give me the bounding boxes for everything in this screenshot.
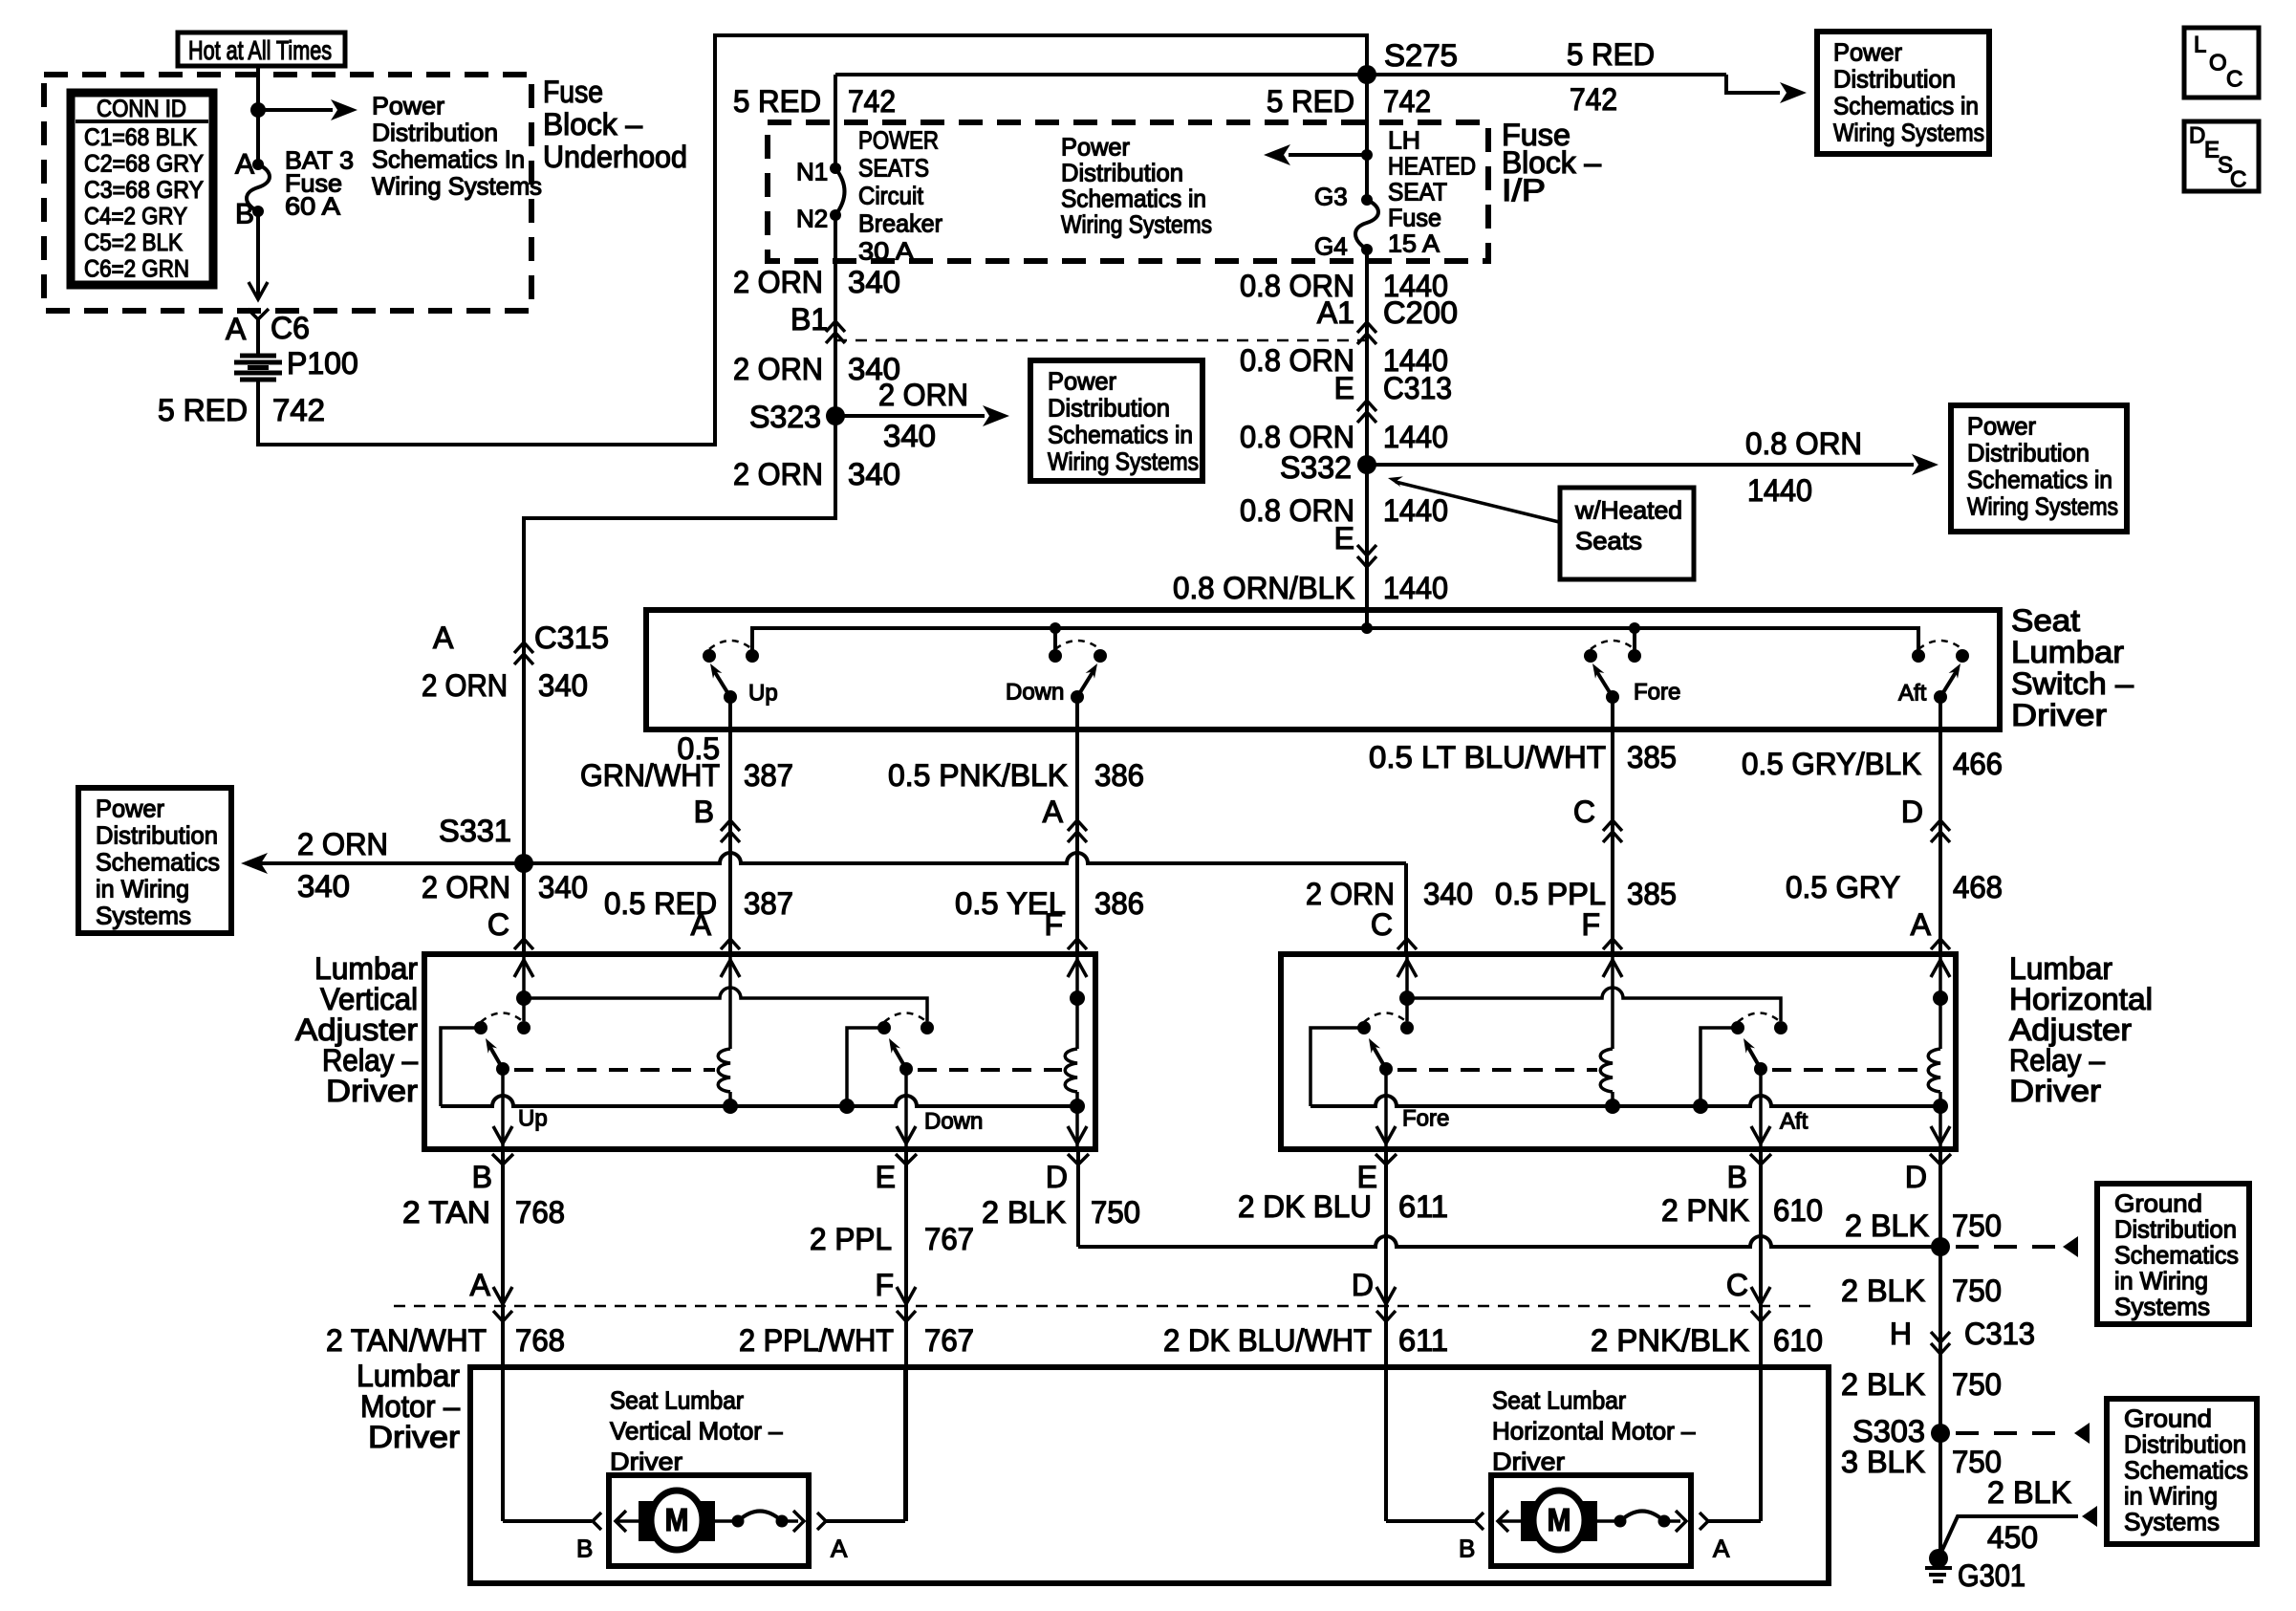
- svg-text:A: A: [1043, 795, 1064, 829]
- wire 450 to ground ref: [1942, 1516, 2078, 1550]
- svg-text:A: A: [691, 907, 712, 942]
- fuse block underhood dashed enclosure: [44, 75, 531, 311]
- connector symbol F left relay: [1068, 939, 1087, 949]
- svg-text:15 A: 15 A: [1388, 229, 1440, 258]
- svg-text:2 PPL: 2 PPL: [810, 1222, 892, 1256]
- connector C308 A symbol: [493, 1287, 512, 1304]
- wire arrow S323 to power distribution: [835, 414, 985, 418]
- wire down output 386: [1075, 697, 1079, 951]
- connector symbol below E pin (611): [1375, 1154, 1397, 1165]
- svg-text:2 ORN: 2 ORN: [422, 668, 508, 703]
- ref box: power distribution schematics (S323): [1030, 360, 1202, 481]
- svg-text:Power: Power: [1061, 133, 1130, 162]
- svg-text:B1: B1: [791, 302, 828, 337]
- svg-text:in Wiring: in Wiring: [2114, 1267, 2208, 1295]
- svg-text:G4: G4: [1314, 232, 1348, 261]
- connector symbol C right relay: [1397, 939, 1417, 949]
- svg-text:2 BLK: 2 BLK: [982, 1195, 1066, 1230]
- svg-text:N2: N2: [796, 205, 828, 233]
- connector C308 D symbol: [1376, 1287, 1396, 1304]
- svg-text:Distribution: Distribution: [2114, 1215, 2237, 1244]
- svg-text:2 TAN: 2 TAN: [402, 1195, 490, 1230]
- svg-text:0.8 ORN: 0.8 ORN: [1240, 420, 1354, 454]
- relay internals: lumbar horizontal (Fore/Aft): [1405, 954, 1409, 998]
- svg-text:Driver: Driver: [1492, 1448, 1565, 1476]
- wire S331 rail with hops: [252, 853, 1406, 863]
- wire S331 column down: [522, 863, 526, 951]
- svg-text:750: 750: [1952, 1367, 2002, 1402]
- svg-text:HEATED: HEATED: [1388, 152, 1476, 181]
- svg-text:C200: C200: [1383, 295, 1458, 330]
- svg-text:767: 767: [924, 1222, 974, 1256]
- node S332: [1357, 455, 1376, 474]
- svg-text:Vertical: Vertical: [320, 982, 418, 1016]
- svg-text:D: D: [1046, 1160, 1068, 1194]
- svg-text:B: B: [1459, 1535, 1475, 1563]
- svg-text:Power: Power: [372, 92, 444, 120]
- connector symbol below E pin: [896, 1154, 917, 1165]
- svg-text:340: 340: [297, 869, 350, 903]
- svg-text:Seat: Seat: [2011, 603, 2080, 638]
- fuse BAT 3 terminal B: [252, 206, 264, 217]
- connector symbol D (466): [1931, 820, 1950, 831]
- svg-text:Power: Power: [1967, 412, 2036, 441]
- svg-text:Motor –: Motor –: [360, 1389, 460, 1424]
- svg-text:B: B: [1727, 1160, 1747, 1194]
- svg-text:2 ORN: 2 ORN: [733, 352, 823, 386]
- svg-text:E: E: [1334, 371, 1354, 405]
- svg-text:2 ORN: 2 ORN: [878, 378, 968, 412]
- wire up output 387: [728, 697, 732, 951]
- svg-text:F: F: [875, 1268, 894, 1302]
- svg-text:340: 340: [538, 668, 588, 703]
- DESC box: [2184, 121, 2259, 191]
- svg-text:0.5 GRY/BLK: 0.5 GRY/BLK: [1742, 747, 1921, 781]
- svg-text:387: 387: [744, 886, 793, 921]
- svg-text:S332: S332: [1280, 450, 1352, 485]
- node bus at down switch: [1050, 622, 1061, 634]
- svg-text:Lumbar: Lumbar: [314, 951, 418, 986]
- svg-text:M: M: [665, 1502, 689, 1537]
- svg-text:468: 468: [1953, 870, 2003, 904]
- svg-text:385: 385: [1627, 877, 1677, 911]
- svg-text:C313: C313: [1964, 1317, 2035, 1351]
- svg-text:B: B: [576, 1535, 593, 1563]
- svg-text:Aft: Aft: [1898, 680, 1927, 706]
- svg-text:1440: 1440: [1383, 571, 1448, 605]
- svg-text:S323: S323: [749, 400, 821, 434]
- svg-text:0.5 PPL: 0.5 PPL: [1495, 877, 1606, 911]
- svg-text:Seats: Seats: [1575, 527, 1642, 555]
- svg-text:Fuse: Fuse: [543, 75, 603, 109]
- connector C313-H symbol: [1931, 1332, 1950, 1342]
- svg-text:N1: N1: [796, 158, 828, 186]
- svg-text:2 DK BLU/WHT: 2 DK BLU/WHT: [1163, 1323, 1372, 1358]
- node S331: [514, 854, 533, 873]
- wire B pin 768: [501, 1149, 505, 1306]
- svg-text:Vertical Motor –: Vertical Motor –: [610, 1417, 783, 1446]
- connector symbol A right relay: [1931, 939, 1950, 949]
- connector symbol C left relay: [514, 939, 533, 949]
- relay internals: lumbar vertical (Up/Down): [522, 954, 526, 998]
- svg-text:Driver: Driver: [2009, 1074, 2101, 1108]
- connector C6 female symbol: [248, 309, 269, 319]
- svg-text:SEAT: SEAT: [1388, 178, 1447, 207]
- svg-text:60 A: 60 A: [285, 192, 341, 221]
- svg-text:A: A: [1911, 907, 1932, 942]
- stub to down switch contact: [1053, 628, 1057, 650]
- svg-text:450: 450: [1987, 1520, 2038, 1555]
- svg-text:611: 611: [1398, 1323, 1448, 1358]
- dashed ref to ground distribution (upper): [1956, 1245, 2059, 1249]
- svg-text:Ground: Ground: [2114, 1189, 2202, 1218]
- circuit breaker element: [835, 168, 845, 215]
- svg-text:A: A: [433, 620, 454, 655]
- svg-text:610: 610: [1773, 1193, 1823, 1228]
- svg-text:2 TAN/WHT: 2 TAN/WHT: [326, 1323, 487, 1358]
- wire D into motor box: [1384, 1306, 1388, 1521]
- svg-text:D: D: [1352, 1268, 1374, 1302]
- svg-text:D: D: [1901, 795, 1923, 829]
- svg-text:Schematics in: Schematics in: [1833, 92, 1979, 120]
- svg-text:F: F: [1044, 907, 1063, 942]
- svg-text:742: 742: [272, 393, 325, 427]
- svg-text:0.5 GRY: 0.5 GRY: [1786, 870, 1900, 904]
- svg-text:Underhood: Underhood: [543, 140, 687, 174]
- svg-text:386: 386: [1094, 886, 1144, 921]
- svg-text:A: A: [226, 312, 247, 346]
- svg-text:L: L: [2194, 32, 2206, 57]
- svg-text:Driver: Driver: [326, 1074, 418, 1108]
- svg-text:Distribution: Distribution: [1048, 394, 1170, 423]
- svg-text:Wiring Systems: Wiring Systems: [1061, 210, 1212, 239]
- svg-text:G301: G301: [1958, 1558, 2025, 1593]
- svg-text:466: 466: [1953, 747, 2003, 781]
- wire S275 horizontal rail: [835, 73, 1726, 76]
- wire ground rail 750 with hops: [1078, 1236, 1940, 1247]
- svg-text:340: 340: [1423, 877, 1473, 911]
- svg-text:Power: Power: [1833, 38, 1902, 67]
- fuse BAT 3 element: [247, 164, 270, 211]
- svg-text:Driver: Driver: [2011, 698, 2107, 732]
- svg-text:742: 742: [848, 84, 896, 119]
- wire C into motor box: [1759, 1306, 1763, 1521]
- svg-text:C3=68 GRY: C3=68 GRY: [84, 177, 204, 204]
- svg-text:5 RED: 5 RED: [733, 84, 821, 119]
- svg-text:C: C: [1726, 1268, 1748, 1302]
- svg-text:340: 340: [538, 870, 588, 904]
- svg-text:2 PNK: 2 PNK: [1661, 1193, 1749, 1228]
- svg-text:Distribution: Distribution: [96, 821, 218, 850]
- svg-text:LH: LH: [1388, 126, 1420, 155]
- connector symbol below D pin (right): [1930, 1154, 1951, 1165]
- relay box: lumbar vertical adjuster relay: [424, 954, 1095, 1149]
- svg-text:Distribution: Distribution: [1061, 159, 1183, 187]
- svg-text:Distribution: Distribution: [372, 119, 498, 147]
- svg-text:1440: 1440: [1747, 473, 1812, 508]
- relay box: lumbar horizontal adjuster relay: [1281, 954, 1956, 1149]
- svg-text:340: 340: [883, 419, 936, 453]
- svg-text:2 ORN: 2 ORN: [422, 870, 510, 904]
- svg-text:387: 387: [744, 758, 793, 793]
- svg-text:Driver: Driver: [610, 1448, 682, 1476]
- fuse LH heated seat terminal G4: [1361, 244, 1373, 255]
- svg-text:Power: Power: [96, 795, 164, 823]
- node S323: [826, 406, 845, 425]
- svg-text:S275: S275: [1384, 38, 1458, 73]
- wire A into motor box: [501, 1306, 505, 1521]
- svg-text:768: 768: [515, 1323, 565, 1358]
- svg-text:C6=2 GRN: C6=2 GRN: [84, 256, 189, 283]
- svg-text:Distribution: Distribution: [1967, 439, 2090, 468]
- connector symbol A (386): [1068, 820, 1087, 831]
- seat lumbar switch box: [646, 610, 2000, 729]
- svg-text:B: B: [235, 199, 254, 230]
- svg-text:in Wiring: in Wiring: [96, 875, 189, 903]
- ref box: ground distribution schematics (upper): [2097, 1184, 2249, 1324]
- svg-text:Distribution: Distribution: [2124, 1430, 2246, 1459]
- connector C200 symbol: [1357, 322, 1376, 333]
- svg-text:385: 385: [1627, 740, 1677, 774]
- svg-text:0.8 ORN/BLK: 0.8 ORN/BLK: [1173, 571, 1354, 605]
- svg-text:610: 610: [1773, 1323, 1823, 1358]
- svg-text:750: 750: [1952, 1445, 2002, 1479]
- node bus at fore switch: [1629, 622, 1640, 634]
- svg-text:742: 742: [1570, 82, 1617, 117]
- svg-text:611: 611: [1398, 1189, 1448, 1224]
- svg-text:2 DK BLU: 2 DK BLU: [1238, 1189, 1372, 1224]
- svg-text:O: O: [2209, 50, 2227, 76]
- svg-text:S331: S331: [439, 814, 511, 848]
- svg-text:2 BLK: 2 BLK: [1845, 1208, 1929, 1243]
- connector B1 symbol: [826, 321, 845, 332]
- wire F into motor box: [904, 1306, 908, 1521]
- fuse LH heated seat terminal G3: [1361, 194, 1373, 206]
- svg-text:C5=2 BLK: C5=2 BLK: [84, 229, 183, 256]
- svg-text:5 RED: 5 RED: [1267, 84, 1354, 119]
- ref box: ground distribution schematics (lower): [2107, 1399, 2257, 1544]
- ground G301 terminal: [1929, 1549, 1948, 1568]
- ref box: power distribution schematics (top right): [1817, 32, 1989, 154]
- svg-text:GRN/WHT: GRN/WHT: [580, 758, 720, 793]
- svg-text:Fore: Fore: [1634, 679, 1680, 705]
- connector symbol C (385): [1603, 820, 1622, 831]
- svg-text:C: C: [487, 907, 509, 942]
- svg-text:Schematics In: Schematics In: [372, 145, 525, 174]
- svg-text:Systems: Systems: [96, 902, 191, 930]
- svg-text:Systems: Systems: [2114, 1293, 2210, 1321]
- svg-text:0.5 PNK/BLK: 0.5 PNK/BLK: [888, 758, 1068, 793]
- svg-text:Wiring Systems: Wiring Systems: [1967, 492, 2118, 521]
- svg-text:Schematics: Schematics: [2124, 1456, 2248, 1485]
- svg-text:A: A: [831, 1535, 848, 1563]
- svg-text:Circuit: Circuit: [858, 182, 924, 210]
- svg-text:Wiring Systems: Wiring Systems: [1833, 119, 1984, 147]
- svg-text:Fuse: Fuse: [1388, 204, 1441, 232]
- connector line C308 dashed: [394, 1305, 1810, 1308]
- svg-text:Block –: Block –: [543, 107, 642, 142]
- ref box: power distribution schematics (S331): [78, 788, 231, 933]
- wire S331 down to relay C: [1404, 863, 1408, 951]
- svg-text:B: B: [694, 795, 714, 829]
- svg-text:C1=68 BLK: C1=68 BLK: [84, 124, 197, 151]
- callout w/Heated Seats box: [1560, 488, 1694, 579]
- connector symbol below B pin (610): [1750, 1154, 1771, 1165]
- dashed ref to ground distribution (lower): [1956, 1431, 2070, 1435]
- wire fuse B to connector C6: [256, 211, 260, 297]
- svg-text:POWER: POWER: [858, 126, 939, 155]
- ground symbol: [1925, 1568, 1952, 1581]
- svg-text:A: A: [1713, 1535, 1730, 1563]
- svg-text:Breaker: Breaker: [858, 209, 942, 238]
- svg-text:Schematics: Schematics: [2114, 1241, 2239, 1270]
- svg-text:2 PPL/WHT: 2 PPL/WHT: [739, 1323, 894, 1358]
- wire S275 to arrow junction: [1365, 75, 1369, 200]
- svg-text:2 ORN: 2 ORN: [1306, 877, 1395, 911]
- CONN ID divider: [76, 120, 208, 123]
- svg-text:386: 386: [1094, 758, 1144, 793]
- svg-text:5 RED: 5 RED: [1567, 37, 1655, 72]
- switch Down contacts and arm: [1049, 649, 1062, 663]
- svg-text:Adjuster: Adjuster: [295, 1012, 418, 1047]
- svg-text:C2=68 GRY: C2=68 GRY: [84, 151, 204, 178]
- svg-text:C: C: [1573, 795, 1595, 829]
- connector C308 C symbol: [1751, 1287, 1770, 1304]
- fuse LH heated seat element: [1355, 200, 1378, 250]
- svg-text:Fore: Fore: [1402, 1105, 1449, 1131]
- connector line C200 dashed: [835, 339, 1367, 342]
- svg-text:E: E: [1334, 521, 1354, 555]
- wire fuse G4 down to S332: [1365, 250, 1369, 465]
- wire P100 down around to top rail: [258, 35, 1367, 445]
- svg-text:C4=2 GRY: C4=2 GRY: [84, 204, 187, 230]
- svg-text:Down: Down: [1006, 679, 1064, 705]
- svg-text:Hot at All Times: Hot at All Times: [188, 35, 332, 65]
- wire breaker feed: [834, 75, 837, 168]
- svg-text:C6: C6: [271, 311, 310, 345]
- svg-text:CONN ID: CONN ID: [97, 96, 186, 122]
- LOC box: [2184, 28, 2259, 98]
- svg-text:Driver: Driver: [368, 1420, 460, 1454]
- svg-text:Seat Lumbar: Seat Lumbar: [610, 1386, 744, 1415]
- svg-text:742: 742: [1383, 84, 1431, 119]
- svg-text:Lumbar: Lumbar: [2009, 951, 2112, 986]
- svg-text:Seat Lumbar: Seat Lumbar: [1492, 1386, 1626, 1415]
- svg-text:H: H: [1890, 1317, 1912, 1351]
- svg-text:S303: S303: [1852, 1414, 1925, 1448]
- svg-text:Lumbar: Lumbar: [2011, 635, 2124, 669]
- svg-text:Schematics in: Schematics in: [1061, 185, 1206, 213]
- svg-text:C: C: [2230, 166, 2246, 192]
- wire D pin 750 (left relay): [1076, 1149, 1080, 1247]
- grommet P100 symbol: [234, 356, 282, 380]
- lumbar motor driver box: [470, 1367, 1829, 1583]
- fuse BAT 3 terminal A: [252, 159, 264, 170]
- connector C313-E symbol: [1357, 401, 1376, 411]
- wire ground column: [1939, 1247, 1942, 1555]
- svg-text:Lumbar: Lumbar: [357, 1359, 460, 1393]
- node: tap to power distribution: [250, 102, 266, 118]
- svg-text:C313: C313: [1383, 371, 1452, 405]
- node ground rail junction: [1931, 1237, 1950, 1256]
- wire aft output 466: [1939, 697, 1942, 951]
- connector symbol B (387): [721, 820, 740, 831]
- svg-text:340: 340: [848, 265, 900, 299]
- svg-text:0.8 ORN: 0.8 ORN: [1745, 426, 1862, 461]
- svg-text:Horizontal: Horizontal: [2009, 982, 2153, 1016]
- connector symbol F right relay: [1603, 939, 1622, 949]
- svg-text:C: C: [1371, 907, 1393, 942]
- svg-text:M: M: [1548, 1502, 1571, 1537]
- breaker terminal N2: [830, 209, 841, 221]
- wire breaker out to S323: [834, 215, 837, 416]
- wire vertical motor right side up: [903, 1367, 907, 1521]
- svg-text:C315: C315: [534, 620, 609, 655]
- svg-text:2 ORN: 2 ORN: [733, 265, 823, 299]
- wire S332 down to switch: [1365, 465, 1369, 628]
- svg-text:0.5 LT BLU/WHT: 0.5 LT BLU/WHT: [1369, 740, 1606, 774]
- svg-text:D: D: [1905, 1160, 1927, 1194]
- svg-text:F: F: [1581, 907, 1600, 942]
- svg-text:2 ORN: 2 ORN: [297, 827, 388, 861]
- svg-text:Power: Power: [1048, 367, 1116, 396]
- svg-text:Relay –: Relay –: [322, 1043, 418, 1078]
- wire S323 down left to column 548: [524, 416, 835, 951]
- svg-text:767: 767: [924, 1323, 974, 1358]
- svg-text:2 PNK/BLK: 2 PNK/BLK: [1591, 1323, 1749, 1358]
- node S303: [1931, 1424, 1950, 1443]
- svg-text:G3: G3: [1314, 183, 1348, 211]
- switch Up contacts and arm: [703, 649, 716, 663]
- connector symbol below B pin: [492, 1154, 513, 1165]
- fuse block I/P dashed enclosure: [768, 122, 1488, 261]
- svg-text:750: 750: [1091, 1195, 1140, 1230]
- svg-text:2 BLK: 2 BLK: [1841, 1274, 1925, 1308]
- svg-text:D: D: [2189, 122, 2205, 148]
- svg-text:Systems: Systems: [2124, 1508, 2220, 1536]
- wire B pin 610: [1759, 1149, 1763, 1306]
- svg-text:340: 340: [848, 457, 900, 491]
- stub to fore switch contact: [1633, 628, 1636, 650]
- svg-text:SEATS: SEATS: [858, 154, 929, 183]
- svg-text:Aft: Aft: [1780, 1108, 1809, 1134]
- breaker terminal N1: [830, 163, 841, 174]
- switch Aft contacts and arm: [1912, 649, 1925, 663]
- svg-text:in Wiring: in Wiring: [2124, 1482, 2218, 1511]
- svg-text:A1: A1: [1317, 295, 1354, 330]
- svg-text:30 A: 30 A: [858, 237, 915, 266]
- wire E pin 611: [1384, 1149, 1388, 1306]
- connector C313-E lower symbol: [1357, 545, 1376, 555]
- callout arrow to S332: [1396, 482, 1559, 522]
- svg-text:B: B: [472, 1160, 492, 1194]
- wire fore output 385: [1611, 697, 1614, 951]
- wire D pin 750 (right relay): [1939, 1149, 1942, 1247]
- switch bus wire: [752, 628, 1918, 656]
- svg-text:w/Heated: w/Heated: [1574, 496, 1682, 525]
- svg-text:Distribution: Distribution: [1833, 65, 1956, 94]
- wire arrow to power distribution schematics: [258, 108, 333, 112]
- svg-text:A: A: [470, 1268, 491, 1302]
- svg-text:3 BLK: 3 BLK: [1841, 1445, 1925, 1479]
- svg-text:1440: 1440: [1383, 493, 1448, 528]
- ref box: power distribution schematics (S332): [1951, 405, 2127, 532]
- svg-text:2 BLK: 2 BLK: [1987, 1475, 2071, 1510]
- switch Fore contacts and arm: [1584, 649, 1597, 663]
- svg-text:768: 768: [515, 1195, 565, 1230]
- svg-text:750: 750: [1952, 1208, 2002, 1243]
- svg-text:P100: P100: [287, 346, 358, 381]
